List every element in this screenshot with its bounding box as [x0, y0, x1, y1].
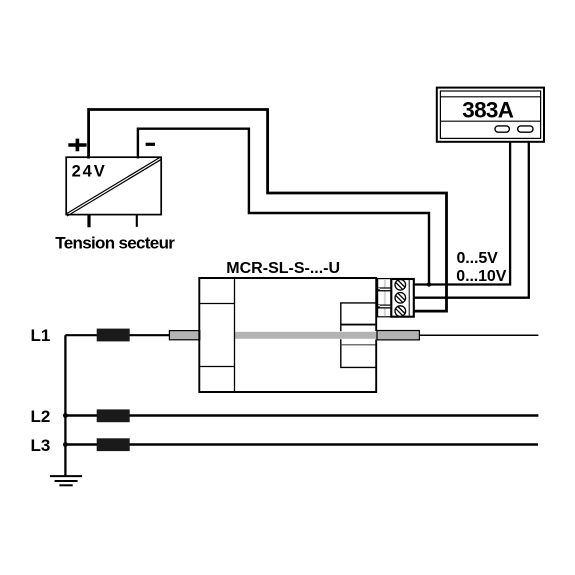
- wire: + supply to terminal 3: [89, 110, 447, 312]
- display button 2: [518, 126, 533, 132]
- fuse F3: [97, 438, 130, 451]
- transducer body outline: [199, 278, 376, 392]
- svg-text:Tension secteur: Tension secteur: [55, 234, 175, 253]
- svg-text:0...10V: 0...10V: [456, 268, 506, 285]
- svg-text:L1: L1: [31, 326, 51, 345]
- terminal block X1 clamp area: [378, 279, 391, 317]
- wire: display left lead to terminal 1: [414, 142, 511, 285]
- primary conductor bar left segment: [169, 331, 199, 340]
- plus sign: [68, 139, 86, 152]
- wire L1 drop to ground: [64, 335, 66, 476]
- right block thick divider: [341, 324, 376, 326]
- junction dot L2: [63, 413, 68, 418]
- primary conductor bar right segment: [377, 331, 419, 340]
- screw terminal 2: [395, 293, 406, 304]
- power supply U1 24V body: [66, 157, 161, 214]
- right block thin divider: [341, 344, 376, 346]
- junction dot L3: [63, 442, 68, 447]
- wire L2: [65, 414, 538, 416]
- clamp shading line: [384, 279, 386, 316]
- display bottom divider: [440, 120, 540, 122]
- wire: - supply to terminal 1 junction: [138, 129, 429, 285]
- fuse F2: [97, 409, 130, 422]
- display panel 383A outer: [437, 88, 544, 142]
- svg-text:MCR-SL-S-...-U: MCR-SL-S-...-U: [226, 260, 340, 277]
- minus sign: [146, 143, 155, 146]
- left column upper divider: [199, 303, 234, 305]
- supply bottom stub right: [136, 215, 138, 227]
- transducer left column divider: [234, 278, 236, 392]
- clamp tick row1: [377, 287, 391, 291]
- clamp tick row2: [377, 305, 391, 309]
- wire L1 right: [419, 334, 538, 336]
- junction dot node A: [427, 282, 431, 286]
- screw terminal 3: [395, 306, 406, 317]
- supply bottom stub left: [87, 215, 90, 228]
- wire: display right lead to terminal 2: [414, 142, 529, 298]
- screw box inner line: [408, 280, 410, 316]
- power supply diagonal (AC/DC separator): [67, 157, 161, 214]
- display inner frame: [440, 91, 540, 138]
- display top divider: [440, 96, 540, 98]
- screw terminal 1: [395, 280, 406, 291]
- svg-text:0...5V: 0...5V: [457, 250, 499, 267]
- transducer right block outline: [341, 303, 376, 368]
- display button 1: [495, 126, 509, 132]
- primary conductor bar inside module: [235, 332, 377, 339]
- svg-text:L3: L3: [31, 436, 51, 455]
- wire L3: [65, 443, 538, 445]
- wire L1 left: [65, 334, 170, 336]
- svg-text:24V: 24V: [72, 163, 107, 181]
- terminal screw box: [391, 279, 414, 317]
- left column lower divider: [199, 366, 234, 368]
- transducer body fill: [198, 277, 377, 393]
- fuse F1: [97, 329, 130, 342]
- svg-text:L2: L2: [31, 407, 51, 426]
- ground: [50, 476, 82, 485]
- svg-text:383A: 383A: [462, 98, 514, 123]
